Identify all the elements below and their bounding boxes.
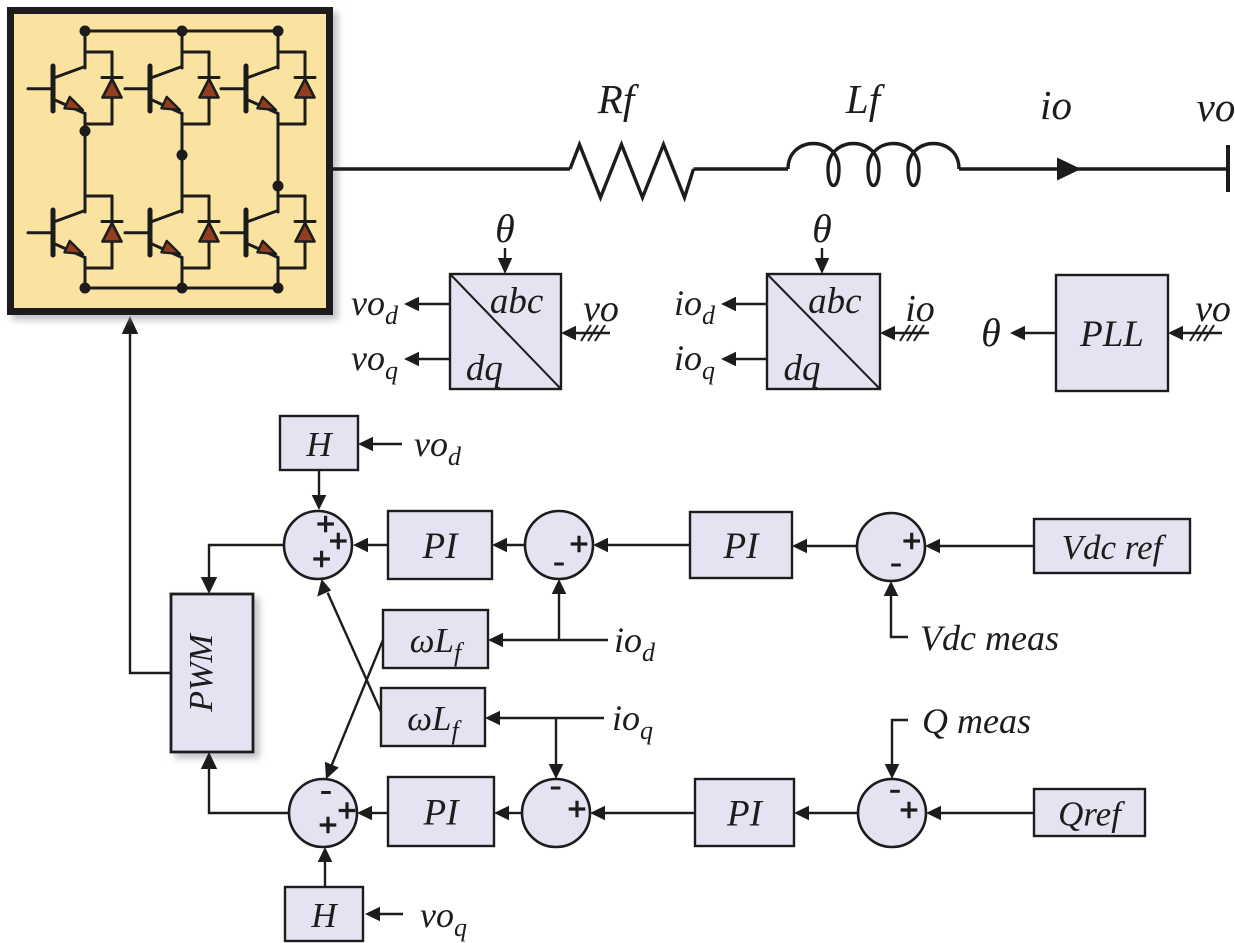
arrow io (current direction) [1057,158,1081,181]
wire wLf1 output to S4 (cross-coupling, arrow down) [332,640,383,765]
block PI2 [690,512,792,578]
wire io_d output [736,303,767,305]
block PI4 [695,779,794,846]
svg-text:vo: vo [583,288,619,330]
wire theta into block 1 [504,248,506,259]
block PWM [171,594,253,752]
svg-text:H: H [305,425,333,464]
transistor Q4 (lower IGBT, leg 2) [125,155,209,288]
wire wLf2 output to S1 (cross-coupling, arrow up) [328,593,381,712]
PLL block [1056,275,1168,391]
svg-text:H: H [310,896,338,935]
wire Rf to Lf [694,167,789,170]
wire io_q junction down into S5 [555,718,557,764]
transistor Q2 (lower IGBT, leg 1) [28,131,112,288]
resistor Rf [570,145,694,198]
wire S5 to PI3 [509,812,522,814]
wire PWM output to inverter gate input [130,334,171,673]
wire PI2 to S2 [608,544,690,546]
summing junction S2 (d-axis current error) [525,511,593,579]
3-phase slash marks [581,325,605,341]
junction dots (DC rails and phase nodes) [80,26,284,294]
summing junction S1 (d-axis modulation sum) [284,511,352,579]
summing junction S5 (q-axis current error) [522,779,590,847]
wire vo_d output [419,303,450,305]
svg-text:abc: abc [808,281,862,322]
block PI1 [388,511,492,579]
svg-text:vo: vo [1197,84,1235,130]
wire S6 to PI4 [809,812,858,814]
wire io input (3-phase) [895,332,929,334]
diode D2 (anti-parallel, leg 1) [102,196,122,268]
svg-text:PLL: PLL [1079,314,1144,355]
wire PI4 to S5 [605,812,695,814]
svg-text:iod: iod [674,283,716,330]
block H2 [285,887,363,941]
summing junction S4 (q-axis modulation sum) [289,779,357,847]
wire io_q into wLf2 [500,717,604,719]
block PI3 [388,777,494,846]
wire H1 down to S1 [318,470,320,495]
wire H2 up into S4 [324,862,326,887]
wire io_q output [736,358,767,360]
wire Lf to terminal vo [959,167,1228,170]
svg-text:voq: voq [351,338,398,385]
svg-text:PI: PI [423,793,461,834]
wire S1 to PWM (top input) [209,545,284,577]
transistor Q1 (upper IGBT, leg 1) [28,31,112,131]
wire vo_d into H1 [373,443,402,445]
diode D6 (anti-parallel, leg 3) [295,196,315,268]
wire inverter AC output [333,167,570,170]
abc/dq transformation block 1 [450,274,561,389]
wire theta into block 2 [821,248,823,259]
wire Vdc ref to S3 [940,545,1034,547]
wire vo_q into H2 [380,913,403,915]
svg-text:dq: dq [784,348,821,389]
svg-text:PI: PI [422,526,460,567]
wire Qref to S6 [941,812,1034,814]
svg-text:Qref: Qref [1058,795,1125,834]
diode D3 (anti-parallel, leg 2) [199,52,219,124]
wire theta output of PLL [1025,332,1056,334]
wire Vdc meas into S3 [891,596,908,637]
svg-text:Q meas: Q meas [922,701,1031,741]
svg-text:dq: dq [466,348,503,389]
svg-text:abc: abc [490,281,544,322]
summing junction S3 (Vdc error) [857,513,925,581]
wire S4 to PWM (bottom input) [209,769,289,813]
wire io_d junction up into S2 [558,594,560,640]
wire PI3 to S4 [372,812,388,814]
wire PI1 to S1 [368,544,388,546]
svg-text:Rf: Rf [597,76,640,122]
svg-text:PI: PI [726,794,764,835]
3-phase slash marks [900,325,924,341]
wire vo input to PLL (3-phase) [1183,332,1222,334]
svg-text:vo: vo [1195,288,1231,330]
svg-text:PWM: PWM [183,633,220,713]
wire S2 to PI1 [507,544,525,546]
block H1 [280,416,358,470]
svg-text:Vdc ref: Vdc ref [1062,528,1167,567]
svg-text:θ: θ [981,310,1001,355]
svg-text:Vdc meas: Vdc meas [920,618,1059,658]
svg-text:ioq: ioq [674,338,715,385]
svg-text:voq: voq [420,895,467,942]
inductor Lf [788,144,959,186]
svg-text:vod: vod [414,424,462,471]
svg-text:θ: θ [812,206,832,251]
diode D4 (anti-parallel, leg 2) [199,196,219,268]
block omega-Lf (q-axis decoupling gain) [381,688,485,746]
svg-text:ioq: ioq [612,698,653,745]
block Qref [1034,789,1145,836]
diode D5 (anti-parallel, leg 3) [295,52,315,124]
block omega-Lf (d-axis decoupling gain) [383,610,488,668]
svg-text:θ: θ [495,206,515,251]
svg-text:iod: iod [614,620,656,667]
inverter box (2-level VSC) [11,11,330,312]
transistor Q6 (lower IGBT, leg 3) [221,186,305,288]
wire vo input (3-phase) [576,332,610,334]
DC top rail [85,30,278,33]
DC bottom rail [85,287,278,290]
transistor Q3 (upper IGBT, leg 2) [125,31,209,155]
wire vo_q output [419,358,450,360]
svg-text:PI: PI [723,526,761,567]
wire S3 to PI2 [807,545,857,547]
wire io_d into wLf1 [503,639,608,641]
svg-text:io: io [905,288,935,330]
summing junction S6 (Q error) [858,779,926,847]
transistor Q5 (upper IGBT, leg 3) [221,31,305,186]
terminal vo [1226,145,1230,192]
3-phase slash marks [1190,325,1214,341]
block Vdcref [1034,519,1190,573]
svg-text:io: io [1040,82,1072,128]
svg-text:vod: vod [351,283,399,330]
diode D1 (anti-parallel, leg 1) [102,52,122,124]
abc/dq transformation block 2 [767,274,880,389]
svg-text:Lf: Lf [845,76,886,122]
wire Q meas into S6 [892,720,908,764]
